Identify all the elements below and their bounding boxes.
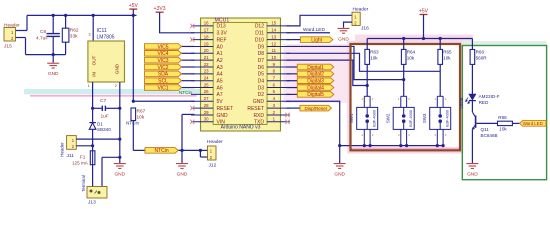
svg-text:10k: 10k: [137, 114, 145, 120]
svg-text:27: 27: [204, 96, 209, 101]
junction J11-pin1/GND-drop: [118, 138, 121, 141]
wire D1 to F1: [92, 130, 94, 151]
MCU pin 17 3.3V (left): [191, 32, 213, 34]
svg-text:OUT: OUT: [91, 55, 96, 65]
resistor R66: [470, 50, 475, 65]
header J15 box: [4, 28, 16, 42]
MCU pin 9 D6 (right): [267, 66, 290, 68]
svg-text:VIC3: VIC3: [157, 58, 168, 64]
fuse F1: [90, 151, 95, 165]
svg-text:GND: GND: [334, 172, 345, 178]
ground GND1: [47, 63, 59, 68]
junction D9/SW2 column: [402, 78, 405, 81]
wire R66 to LED: [471, 64, 473, 94]
diode D1 SB340: [89, 123, 96, 130]
net label Disp/Reset: [300, 105, 332, 111]
net label VIC3: [145, 57, 182, 63]
net label Digital5: [297, 92, 334, 98]
junction SW1 pin3/GND wire: [369, 144, 372, 147]
wire SCL to MCU: [182, 80, 195, 82]
svg-text:Header: Header: [60, 142, 65, 157]
MCU pin 18 REF (left): [191, 39, 213, 41]
wire Q11 base to R68: [476, 122, 497, 124]
svg-text:10k: 10k: [499, 127, 507, 132]
header J11 box: [67, 136, 77, 150]
resistor R64 body: [401, 49, 406, 64]
MCU pin 22 A3 (left): [191, 66, 213, 68]
MCU pin 23 A4 (left): [191, 73, 213, 75]
svg-text:VIC5: VIC5: [157, 44, 168, 50]
svg-text:D4: D4: [258, 79, 265, 85]
svg-text:125 mA: 125 mA: [72, 160, 89, 165]
junction C7/GND-drop: [118, 107, 121, 110]
resistor R68: [498, 121, 513, 125]
svg-text:+3V3: +3V3: [154, 6, 166, 12]
svg-text:REF: REF: [217, 37, 227, 43]
svg-text:SB340: SB340: [97, 127, 111, 132]
svg-text:20: 20: [204, 48, 209, 53]
wire +5V to R66: [471, 39, 473, 50]
junction +5V-drop/top-rail: [132, 14, 135, 17]
net label Digital3: [297, 78, 334, 84]
wire C6 top stem: [52, 15, 54, 33]
svg-text:GND: GND: [253, 99, 265, 105]
capacitor C6: [47, 33, 60, 35]
no-connect X on MCU pin 16: [190, 24, 194, 28]
svg-text:Digital2: Digital2: [307, 72, 324, 78]
MCU pin 21 A2 (left): [191, 59, 213, 61]
wire J13 pin2 riser: [101, 157, 103, 186]
svg-text:10k: 10k: [370, 56, 378, 61]
svg-text:3.3V: 3.3V: [217, 31, 228, 37]
wire 7805 pin3 OUT riser: [92, 15, 94, 41]
svg-text:J11: J11: [67, 153, 75, 159]
power +5V (right): [420, 14, 428, 16]
wire D11 (Ward.LED net): [287, 32, 331, 34]
svg-text:R66: R66: [476, 50, 485, 55]
net label Light: [300, 37, 333, 43]
wire R68 to Ward.LED label: [512, 122, 519, 124]
MCU pin 20 A1 (left): [191, 52, 213, 54]
svg-text:J13: J13: [88, 200, 96, 206]
MCU pin 11 D8 (right): [267, 52, 290, 54]
svg-text:Digital3: Digital3: [307, 79, 324, 85]
svg-text:GND: GND: [177, 172, 188, 178]
MCU pin 16 D13 (left): [191, 25, 213, 27]
MCU pin 19 A0 (left): [191, 45, 213, 47]
svg-text:Disp/Reset: Disp/Reset: [305, 106, 328, 111]
svg-text:Digital5: Digital5: [307, 92, 324, 98]
wire MCU pin29 GND: [182, 113, 195, 115]
svg-text:GND: GND: [114, 63, 119, 74]
svg-text:RESET: RESET: [247, 106, 264, 112]
svg-text:TXD: TXD: [254, 120, 264, 126]
svg-text:VIC4: VIC4: [157, 51, 168, 57]
wire LED to Q11 collector: [471, 101, 473, 112]
svg-text:SW1: SW1: [349, 113, 354, 123]
wire Digital4: [287, 87, 298, 89]
junction NTCin/GND-drop: [180, 149, 183, 152]
MCU pin 29 GND (left): [191, 114, 213, 116]
svg-text:22: 22: [204, 62, 209, 67]
svg-text:D5: D5: [258, 72, 265, 78]
svg-text:+5V: +5V: [419, 8, 429, 14]
wire +3V3 to MCU pin17: [160, 12, 195, 33]
svg-text:16: 16: [204, 21, 209, 26]
svg-text:J15: J15: [4, 44, 12, 50]
svg-text:D10: D10: [255, 37, 264, 43]
svg-text:5V: 5V: [217, 99, 224, 105]
junction 5V/R67: [132, 100, 135, 103]
junction D7/SW1 column: [366, 84, 369, 87]
wire 7805 GND pin2 drop: [119, 82, 121, 163]
svg-text:D1: D1: [97, 121, 103, 126]
no-connect X on MCU pin 18: [190, 37, 194, 41]
svg-text:NTCin: NTCin: [179, 90, 192, 95]
wire VIC1 to MCU: [182, 87, 195, 89]
wire D8 to SW3 node: [287, 53, 441, 71]
MCU pin 26 A7 (left): [191, 93, 213, 95]
ground GND3 (regulator): [114, 164, 126, 169]
net label SDA: [145, 71, 182, 77]
wire R62 bottom stub: [65, 42, 67, 54]
svg-text:28: 28: [204, 103, 209, 108]
svg-text:19: 19: [204, 41, 209, 46]
svg-text:33k: 33k: [70, 34, 78, 40]
highlight wash: cyan band on NTC net (A7 row): [24, 89, 201, 94]
svg-text:A5: A5: [217, 79, 223, 85]
svg-text:Ward.LED: Ward.LED: [523, 121, 543, 126]
svg-text:A0: A0: [217, 44, 223, 50]
svg-text:D2: D2: [258, 92, 265, 98]
group box: LEDs (green): [462, 46, 546, 180]
resistor R65 10k: [439, 39, 441, 50]
wire D10 to Light label: [287, 39, 301, 41]
svg-text:GND: GND: [114, 172, 125, 178]
svg-text:R68: R68: [498, 115, 507, 120]
net label NTCin: [145, 148, 178, 154]
no-connect X on MCU pin 30: [190, 120, 194, 124]
wire Digital3: [287, 80, 298, 82]
highlight wash: pink zone right of MCU: [284, 44, 351, 103]
wire +5V top rail: [27, 14, 137, 16]
svg-text:23: 23: [204, 69, 209, 74]
wire D7 to SW1 node: [287, 60, 368, 85]
svg-text:VIN: VIN: [217, 120, 226, 126]
svg-text:Q11: Q11: [481, 127, 490, 132]
junction J12 pins: [199, 149, 202, 152]
wire R64 to SW2: [403, 64, 405, 96]
svg-text:17: 17: [204, 28, 209, 33]
svg-text:R62: R62: [70, 28, 79, 34]
MCU pin 15 D12 (right): [267, 25, 290, 27]
wire J13 pin2 to GND net: [102, 156, 120, 158]
wire +5V rail (switches): [367, 38, 472, 40]
junction 7805-OUT/top-rail: [92, 14, 95, 17]
svg-text:R67: R67: [137, 108, 146, 114]
svg-text:A1: A1: [217, 51, 223, 57]
svg-text:13: 13: [271, 34, 276, 39]
svg-text:MCU1: MCU1: [215, 17, 230, 23]
svg-text:AM23ID-F: AM23ID-F: [479, 94, 500, 99]
svg-text:10k: 10k: [443, 56, 451, 61]
junction rail/R65: [439, 37, 442, 40]
highlight wash: pink halo around +5V rail to switches: [355, 35, 473, 44]
svg-text:A4: A4: [217, 72, 223, 78]
wire MCU GND pin drop: [181, 114, 183, 163]
highlight: pink line above switch group box bottom edge: [351, 147, 459, 149]
svg-text:GND: GND: [217, 113, 229, 119]
switch SW3 B3F-4000: [430, 96, 451, 145]
ground GND2 (MCU): [176, 164, 188, 169]
junction SW3 pin4/GND wire: [436, 144, 439, 147]
svg-text:Header: Header: [353, 6, 369, 12]
switch SW2 B3F-4000: [393, 96, 414, 145]
MCU inner box: [213, 23, 267, 125]
MCU pin 14 D11 (right): [267, 32, 290, 34]
svg-text:10k: 10k: [407, 56, 415, 61]
svg-text:D11: D11: [255, 31, 264, 37]
svg-text:F1: F1: [80, 154, 86, 159]
wire +5V drop to MCU/R67: [132, 15, 134, 101]
svg-text:RESET: RESET: [217, 106, 234, 112]
junction J11-pin2/IN: [91, 144, 94, 147]
wire J16 pin2 to GND: [344, 22, 353, 28]
net label VIC1: [145, 85, 182, 91]
svg-text:SW3: SW3: [422, 113, 427, 123]
wire Digital1: [287, 66, 298, 68]
group box: switches (brown): [351, 44, 461, 150]
wire J12 pin2 stub: [200, 156, 207, 158]
wire 5V to MCU pin 27: [133, 100, 194, 102]
wire R62 top stub: [65, 15, 67, 28]
svg-text:J16: J16: [361, 26, 369, 32]
junction GND/switch return: [338, 144, 341, 147]
wire D12 to J16 pin1: [287, 15, 353, 26]
MCU pin 8 D5 (right): [267, 73, 290, 75]
wire VIC3 to MCU: [182, 59, 195, 61]
highlight: pink halo around switch group box: [349, 42, 462, 152]
wire C7 left: [93, 107, 102, 109]
junction C6/top-rail: [52, 14, 55, 17]
net label Ward.LED: [520, 121, 547, 127]
MCU pin 24 A5 (left): [191, 80, 213, 82]
highlight: mint halo above LED group box top edge: [462, 41, 546, 46]
wire VIC4 to MCU: [182, 52, 195, 54]
wire J15 pin1 stub: [14, 30, 28, 32]
wire J11 pin2 to IN net: [76, 145, 92, 147]
svg-text:Digital1: Digital1: [307, 65, 324, 71]
svg-text:14: 14: [271, 28, 276, 33]
svg-text:Header: Header: [207, 139, 223, 145]
ground GND6 (LED): [466, 164, 478, 169]
MCU pin 28 RESET (left): [191, 107, 213, 109]
MCU pin 5 D2 (right): [267, 93, 290, 95]
voltage regulator IC11 LM7805: [88, 41, 125, 82]
LED LED6 AM23ID-F: [469, 94, 476, 100]
wire +5V symbol stub: [132, 9, 134, 15]
wire to GND (input cap): [52, 55, 54, 63]
no-connect X on MCU pin 28: [190, 106, 194, 110]
svg-text:RED: RED: [479, 100, 489, 105]
switch SW1 B3F-4000: [357, 96, 378, 145]
svg-text:11: 11: [272, 48, 277, 53]
svg-text:Digital4: Digital4: [307, 85, 324, 91]
svg-text:D12: D12: [255, 24, 264, 30]
wire NTCin horizontal: [133, 149, 200, 151]
MCU pin 2 RXD (right): [267, 114, 290, 116]
svg-text:C6: C6: [40, 29, 46, 35]
wire J12 pin1 stub: [200, 149, 207, 151]
svg-text:SCL: SCL: [158, 79, 168, 85]
svg-text:Terminal: Terminal: [81, 175, 86, 192]
MCU pin 13 D10 (right): [267, 39, 290, 41]
svg-text:R63: R63: [370, 50, 379, 55]
svg-text:560R: 560R: [476, 56, 488, 61]
svg-text:VIC1: VIC1: [157, 85, 168, 91]
svg-text:26: 26: [204, 89, 209, 94]
svg-text:B3F-4000: B3F-4000: [446, 110, 450, 127]
wire F1 to J13 pin1: [92, 165, 94, 187]
resistor R63 10k: [366, 39, 368, 50]
resistor R65 body: [438, 49, 443, 64]
svg-text:D7: D7: [258, 58, 265, 64]
junction C6/bottom-rail: [52, 53, 55, 56]
resistor R64 10k: [403, 39, 405, 50]
svg-text:25: 25: [204, 82, 209, 87]
ground GND5 (switches): [334, 164, 346, 169]
wire C7 right: [106, 107, 120, 109]
wire R67 bottom to NTCin: [132, 121, 134, 151]
svg-text:NTCin: NTCin: [126, 121, 139, 126]
svg-text:D8: D8: [258, 51, 265, 57]
svg-text:SW2: SW2: [386, 113, 391, 123]
svg-text:GND: GND: [467, 172, 478, 178]
junction SW2 pin3/GND wire: [405, 144, 408, 147]
svg-text:NTCin: NTCin: [155, 148, 169, 154]
svg-text:C7: C7: [100, 98, 106, 104]
wire +5V riser (right): [423, 15, 425, 39]
net label VIC2: [145, 64, 182, 70]
svg-text:1: 1: [88, 84, 90, 88]
junction rail/R64: [402, 37, 405, 40]
MCU pin 3 RESET (right): [267, 107, 290, 109]
net label Digital4: [297, 85, 334, 91]
svg-text:A2: A2: [217, 58, 223, 64]
MCU pin 1 TXD (right): [267, 121, 290, 123]
wire Digital5: [287, 93, 298, 95]
net label Digital1: [297, 64, 334, 70]
svg-text:A7: A7: [217, 92, 223, 98]
MCU pin 4 GND (right): [267, 100, 290, 102]
MCU U1: Arduino NANO v3 outer box: [201, 18, 281, 131]
MCU pin 30 VIN (left): [191, 121, 213, 123]
svg-text:GND: GND: [338, 36, 349, 42]
svg-text:R65: R65: [443, 50, 452, 55]
svg-text:3: 3: [89, 33, 91, 37]
svg-text:SDA: SDA: [158, 72, 169, 78]
svg-text:D13: D13: [217, 24, 226, 30]
svg-text:29: 29: [204, 110, 209, 115]
svg-text:Ward.LED: Ward.LED: [303, 27, 325, 33]
ground GND4 (J16): [338, 28, 350, 33]
wire MCU pin4 GND down: [287, 101, 340, 163]
wire J15 pin1 riser: [26, 15, 28, 30]
svg-text:12: 12: [271, 41, 276, 46]
svg-text:30: 30: [204, 117, 209, 122]
svg-text:BC846B: BC846B: [481, 133, 498, 138]
MCU pin 6 D3 (right): [267, 87, 290, 89]
wire RESET to Disp/Reset label: [287, 107, 301, 109]
highlight: pink line under NTC band: [30, 95, 197, 97]
svg-text:24: 24: [204, 76, 209, 81]
svg-text:1uF: 1uF: [101, 114, 109, 120]
power +5V (left): [129, 8, 137, 10]
svg-text:B3F-4000: B3F-4000: [373, 110, 377, 127]
resistor R67: [131, 108, 136, 121]
svg-text:RXD: RXD: [253, 113, 264, 119]
svg-text:B3F-4000: B3F-4000: [409, 110, 413, 127]
wire R65 to SW3: [439, 64, 441, 96]
net label VIC5: [145, 44, 182, 50]
transistor Q11 BC846B: [475, 116, 477, 128]
wire VIC5 to MCU: [182, 45, 195, 47]
svg-text:D9: D9: [258, 44, 265, 50]
svg-text:18: 18: [204, 34, 209, 39]
MCU pin 10 D7 (right): [267, 59, 290, 61]
wire J12 pin tie: [199, 150, 201, 157]
wire 7805 IN drop (pin 1): [92, 82, 94, 122]
svg-text:J12: J12: [209, 163, 217, 169]
net label Digital2: [297, 71, 334, 77]
junction C7/IN: [91, 107, 94, 110]
wire J15 pin2 stub: [14, 37, 26, 39]
wire J15 pin2 drop: [25, 38, 27, 55]
svg-text:R64: R64: [407, 50, 416, 55]
wire R63 to SW1: [366, 64, 368, 96]
no-connect X on MCU pin 2: [285, 113, 289, 117]
no-connect X on MCU pin 1: [285, 120, 289, 124]
wire switch GND return: [340, 145, 444, 147]
resistor R63 body: [365, 49, 370, 64]
MCU pin 7 D4 (right): [267, 80, 290, 82]
svg-text:2: 2: [115, 84, 117, 88]
svg-text:D6: D6: [258, 65, 265, 71]
svg-text:IN: IN: [91, 72, 96, 77]
MCU pin 27 5V (left): [191, 100, 213, 102]
wire J11 pin1 to GND net: [76, 138, 120, 140]
power +3V3: [156, 11, 164, 13]
svg-text:D3: D3: [258, 85, 265, 91]
header J12 box: [208, 146, 217, 160]
resistor R62: [62, 28, 69, 42]
wire Q11 emitter to GND: [471, 129, 473, 163]
svg-text:A3: A3: [217, 65, 223, 71]
svg-text:10: 10: [271, 55, 276, 60]
net label VIC4: [145, 51, 182, 57]
junction SW2 pin4/GND wire: [399, 144, 402, 147]
svg-text:21: 21: [204, 55, 209, 60]
MCU pin 12 D9 (right): [267, 45, 290, 47]
svg-text:LM7805: LM7805: [97, 35, 115, 41]
junction +5V riser/rail: [422, 37, 425, 40]
wire C6 bottom stem: [52, 37, 54, 55]
wire VIC2 to MCU: [182, 66, 195, 68]
svg-text:15: 15: [271, 21, 276, 26]
wire Digital2: [287, 73, 298, 75]
svg-text:+5V: +5V: [129, 3, 139, 9]
svg-text:IC11: IC11: [97, 28, 107, 34]
